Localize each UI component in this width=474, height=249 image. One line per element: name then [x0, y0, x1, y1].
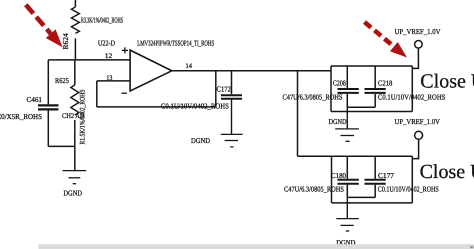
- svg-text:UP_VREF_1.0V: UP_VREF_1.0V: [395, 27, 442, 36]
- capacitor C461: [38, 105, 59, 109]
- svg-text:DGND: DGND: [191, 136, 211, 145]
- wire (ground stem): [74, 146, 76, 170]
- svg-text:LMV324PIPWR/TSSOP14_TI_ROHS: LMV324PIPWR/TSSOP14_TI_ROHS: [137, 39, 214, 48]
- wire (C180 top lead): [346, 156, 348, 179]
- wire (upper group top rail): [331, 65, 412, 67]
- capacitor C208: [338, 89, 359, 93]
- svg-text:R1.5K/1%/0402_ROHS: R1.5K/1%/0402_ROHS: [78, 89, 86, 144]
- svg-text:Close U: Close U: [420, 71, 474, 93]
- wire (C172 top lead): [231, 71, 233, 95]
- wire (upper group right leg): [411, 66, 413, 112]
- wire (lower group left leg): [331, 156, 333, 203]
- arrow callout 1 (red dashed, top-left): [26, 5, 63, 48]
- capacitor C172: [221, 95, 242, 99]
- resistor R625: [71, 85, 79, 115]
- minus mark: [122, 92, 128, 94]
- wire (C461 bottom lead): [47, 110, 49, 146]
- svg-text:R3.3K/1%/0402_ROHS: R3.3K/1%/0402_ROHS: [81, 16, 123, 25]
- wire (R624 top lead): [74, 0, 76, 7]
- arrow callout 2 (red dashed, top-right): [365, 22, 408, 58]
- wire (C180 bottom lead): [346, 185, 348, 198]
- wire (R624 bottom lead): [74, 38, 76, 60]
- capacitor C180: [338, 180, 359, 184]
- wire (C177 top lead): [374, 156, 376, 179]
- wire (terminal 2 stem): [412, 139, 418, 158]
- wire (feedback bottom run): [97, 106, 216, 108]
- wire (op-amp output): [172, 70, 331, 72]
- wire (terminal 1 stem): [412, 48, 418, 68]
- wire (C177 bottom lead): [374, 185, 376, 198]
- op-amp U22-D: [130, 50, 172, 91]
- svg-text:14: 14: [186, 62, 193, 70]
- taskbar strip (bottom gray band): [38, 244, 474, 249]
- ground (DGND lower group): [336, 219, 359, 231]
- svg-text:R624: R624: [61, 33, 70, 50]
- wire (C172 bottom lead): [231, 100, 233, 135]
- svg-text:DGND: DGND: [329, 117, 347, 126]
- plus mark: [122, 47, 128, 53]
- wire (lower group bottom rail): [332, 202, 413, 204]
- wire (lower group top rail): [298, 155, 413, 157]
- wire (node to pin 12): [48, 59, 130, 61]
- svg-text:C208: C208: [333, 79, 346, 88]
- node UP_VREF_1.0V terminal 1: [415, 41, 423, 49]
- wire (R625 top lead): [74, 60, 76, 85]
- wire (bottom connector): [48, 145, 75, 147]
- wire (lower group ground stem): [346, 197, 348, 218]
- wire (R625 bottom lead): [74, 120, 76, 146]
- ground (DGND under C172): [221, 134, 243, 147]
- ground (DGND under R625): [63, 171, 87, 184]
- svg-text:C177: C177: [378, 171, 394, 180]
- svg-text:C0.1U/10V/0402_ROHS: C0.1U/10V/0402_ROHS: [161, 101, 229, 110]
- resistor R624: [71, 7, 79, 33]
- wire (lower group right leg): [411, 156, 413, 203]
- svg-text:U22-D: U22-D: [98, 38, 116, 47]
- svg-text:R625: R625: [55, 76, 69, 85]
- wire (pin 13): [97, 80, 130, 82]
- svg-text:C47U/6.3/0805_ROHS: C47U/6.3/0805_ROHS: [283, 93, 343, 102]
- ground (DGND upper group): [335, 129, 359, 141]
- svg-text:C461: C461: [27, 95, 43, 104]
- wire (upper group ground stem): [346, 107, 348, 129]
- svg-text:C0/X5R_ROHS: C0/X5R_ROHS: [0, 112, 42, 121]
- svg-text:UP_VREF_1.0V: UP_VREF_1.0V: [395, 117, 441, 126]
- svg-text:C218: C218: [378, 79, 393, 88]
- wire (feedback left drop): [96, 81, 98, 107]
- svg-text:C172: C172: [217, 85, 232, 94]
- node UP_VREF_1.0V terminal 2: [415, 131, 423, 139]
- capacitor C218: [365, 89, 386, 93]
- wire (cap bottoms connector lower): [347, 196, 375, 198]
- wire (cap bottoms connector): [347, 106, 375, 108]
- capacitor C177: [365, 180, 386, 184]
- wire (upper group left leg): [330, 66, 332, 112]
- svg-text:C180: C180: [331, 171, 346, 180]
- wire (C208 bottom lead): [346, 94, 348, 107]
- wire (branch down to lower group): [297, 71, 299, 157]
- wire (upper group bottom rail): [331, 111, 412, 113]
- wire (C208 top lead): [346, 66, 348, 88]
- svg-text:Close U: Close U: [420, 161, 474, 183]
- wire (feedback riser to output): [215, 71, 217, 107]
- wire (C461 top lead): [47, 60, 49, 104]
- wire (C218 bottom lead): [374, 94, 376, 107]
- svg-text:C0.1U/10V/0402_ROHS: C0.1U/10V/0402_ROHS: [378, 185, 439, 194]
- svg-text:12: 12: [105, 52, 113, 60]
- svg-text:C47U/6.3/0805_ROHS: C47U/6.3/0805_ROHS: [284, 185, 344, 194]
- svg-text:DGND: DGND: [63, 189, 82, 198]
- wire (C218 top lead): [374, 66, 376, 88]
- svg-text:C0.1U/10V/0402_ROHS: C0.1U/10V/0402_ROHS: [378, 93, 446, 102]
